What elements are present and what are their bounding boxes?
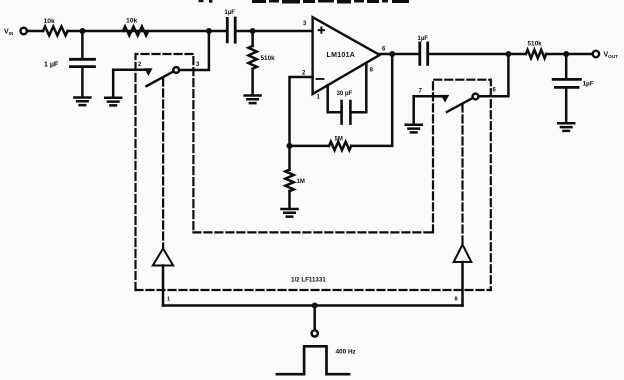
wire clock node to terminal	[313, 306, 316, 331]
minus sign	[317, 78, 324, 80]
wire C5 to ground	[565, 89, 568, 123]
wire op-amp output to C4	[380, 53, 420, 56]
label 400 Hz	[336, 349, 356, 356]
switch SW1 throw circle	[173, 67, 179, 73]
svg-text:LM101A: LM101A	[327, 52, 356, 59]
svg-text:3: 3	[196, 62, 200, 68]
label Vin	[4, 29, 14, 37]
switch SW2 throw circle	[473, 94, 479, 100]
wire R4 to Vout	[546, 53, 593, 56]
pin 8 label (LF11331 control B)	[455, 297, 458, 303]
capacitor C1 1uF	[71, 59, 95, 66]
wire op-amp pin1 to C3	[328, 86, 341, 113]
svg-text:1M: 1M	[297, 179, 305, 185]
node feedback junction	[287, 143, 293, 149]
node C junction	[250, 28, 256, 34]
capacitor C3 30pF	[342, 101, 351, 124]
node clock junction	[312, 303, 318, 309]
switch SW2 arm	[447, 98, 473, 112]
pin 1 label (LF11331 control A)	[167, 297, 170, 303]
svg-text:1µF: 1µF	[583, 81, 594, 88]
node A junction	[79, 28, 85, 34]
wire SW2 pin7 to ground	[412, 96, 415, 124]
wire Vin to R1	[27, 30, 43, 33]
wire node D down to SW2 pin 6	[478, 54, 508, 96]
label 1/2 LF11331	[291, 277, 326, 284]
wire op-amp inverting input to feedback node	[290, 77, 313, 146]
svg-text:6: 6	[382, 47, 386, 53]
wire node to R6 1M	[288, 146, 291, 170]
wire R3 to ground	[251, 69, 254, 96]
svg-text:8: 8	[455, 297, 458, 303]
resistor R2 10k	[123, 27, 148, 36]
svg-text:1: 1	[317, 95, 321, 101]
wire node C down to R3	[251, 31, 254, 46]
resistor R1 10k	[43, 27, 68, 36]
svg-text:8: 8	[370, 68, 374, 74]
resistor R5 5M	[329, 142, 351, 150]
node clock input terminal	[312, 330, 318, 336]
wire R5 to output node	[351, 54, 392, 146]
wire SW1 pin2 contact	[113, 68, 147, 71]
svg-text:2: 2	[302, 71, 306, 77]
svg-text:510k: 510k	[528, 41, 543, 48]
wire driver A to clock bus	[162, 266, 165, 306]
svg-text:10k: 10k	[44, 18, 56, 25]
svg-text:1/2 LF11331: 1/2 LF11331	[291, 277, 326, 284]
cropped page heading text (top edge)	[199, 0, 410, 4]
waveform 400 Hz square pulse	[277, 346, 349, 374]
resistor R4 510k output	[526, 50, 546, 58]
ground (SW2 pin7)	[406, 125, 422, 133]
switch SW1 dashed package outline (top + left + inner right edge)	[136, 54, 194, 290]
svg-text:10k: 10k	[126, 18, 138, 25]
driver A triangle	[153, 249, 173, 266]
resistor R3 510k	[248, 46, 256, 69]
wire SW1 pin2 to ground	[112, 70, 115, 98]
label Vout	[604, 52, 619, 60]
switch SW2 contact arrowhead	[441, 95, 449, 103]
switch SW1 arm	[147, 71, 174, 86]
wire clock bus	[163, 304, 463, 307]
svg-text:30 pF: 30 pF	[337, 91, 353, 97]
svg-text:VOUT: VOUT	[604, 52, 619, 60]
wire R6 to ground	[288, 191, 291, 209]
capacitor C4 1uF output coupling	[420, 43, 428, 64]
svg-text:1µF: 1µF	[225, 10, 236, 16]
pin 2 label (SW1)	[138, 62, 142, 68]
resistor R6 1M	[285, 170, 293, 192]
ground (R3)	[245, 96, 261, 104]
wire C1 to ground	[81, 68, 84, 97]
capacitor C5 1uF output filter	[553, 79, 580, 87]
node output junction	[389, 51, 395, 57]
svg-text:1µF: 1µF	[418, 36, 429, 42]
wire R1 to C2 (top rail)	[68, 30, 227, 33]
node Vout terminal	[593, 51, 599, 57]
wire SW2 pin7 contact	[414, 95, 444, 98]
pin 6 label (SW2)	[493, 88, 497, 94]
op-amp U1 LM101A triangle	[313, 17, 380, 94]
svg-text:400 Hz: 400 Hz	[336, 349, 356, 356]
svg-text:7: 7	[419, 89, 423, 95]
wire node A down to C1	[81, 31, 84, 58]
svg-text:510k: 510k	[261, 55, 276, 62]
svg-text:6: 6	[493, 88, 497, 94]
wire C2 to op-amp +input	[236, 30, 313, 33]
ground (C1)	[74, 98, 90, 106]
ground (R6)	[282, 209, 298, 217]
svg-text:1: 1	[167, 297, 170, 303]
wire C4 to node D	[428, 53, 526, 56]
switch SW1 contact arrowhead	[144, 68, 152, 76]
wire SW2 control (dashed) to driver B	[461, 105, 463, 245]
svg-text:3: 3	[303, 21, 307, 27]
LF11331 package dashed bottom boundary (outer)	[136, 289, 491, 291]
wire node to R5 5M	[290, 145, 330, 148]
driver B triangle	[454, 245, 472, 263]
node Vin terminal	[21, 28, 27, 34]
node D junction	[505, 51, 511, 57]
pin 3 label (SW1)	[196, 62, 200, 68]
wire C3 to op-amp pin8	[352, 63, 367, 112]
ground (SW1 pin2)	[105, 98, 121, 106]
wire node B down to switch SW1 pin 3	[179, 31, 209, 70]
pin 3 label (op-amp +)	[303, 21, 307, 27]
node E junction	[563, 51, 569, 57]
wire node E down to C5	[565, 54, 568, 78]
switch SW2 dashed package outline (top + right + inner left edge)	[433, 80, 491, 290]
svg-text:VIN: VIN	[4, 29, 14, 37]
node B junction	[206, 28, 212, 34]
pin 6 label (op-amp out)	[382, 47, 386, 53]
pin 1 label (op-amp comp)	[317, 95, 321, 101]
plus sign	[319, 27, 324, 32]
capacitor C2 1uF coupling	[227, 18, 235, 42]
svg-text:5M: 5M	[335, 137, 343, 143]
ground (C5)	[558, 123, 574, 131]
wire SW1 control (dashed) to driver A	[162, 79, 164, 249]
pin 8 label (op-amp comp)	[370, 68, 374, 74]
wire driver B to clock bus	[461, 262, 464, 306]
svg-text:2: 2	[138, 62, 142, 68]
pin 7 label (SW2)	[419, 89, 423, 95]
LF11331 package dashed bottom boundary (inner)	[193, 231, 433, 233]
svg-text:1 µF: 1 µF	[44, 62, 59, 69]
pin 2 label (op-amp -)	[302, 71, 306, 77]
